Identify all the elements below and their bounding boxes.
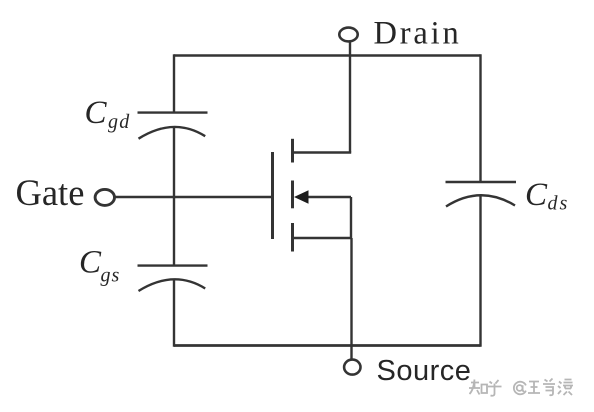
svg-text:Drain: Drain xyxy=(374,15,462,51)
wire body lead xyxy=(305,196,351,198)
wire right rail lower segment xyxy=(479,197,481,347)
wire right rail upper segment xyxy=(479,54,481,182)
滨 xyxy=(558,380,573,396)
svg-text:gd: gd xyxy=(108,111,130,133)
svg-text:gs: gs xyxy=(101,265,121,287)
svg-text:Gate: Gate xyxy=(16,172,85,213)
王 xyxy=(528,382,540,394)
wire bottom rail xyxy=(174,344,481,347)
transistor Q1 body arrow xyxy=(294,190,309,203)
乎 xyxy=(488,380,502,396)
terminal Drain (circle) xyxy=(339,28,357,42)
wire gate lead xyxy=(116,196,272,198)
wire source lead xyxy=(293,237,352,239)
wire left rail lower segment xyxy=(173,280,175,347)
capacitor Cgd xyxy=(138,113,208,139)
terminal Source (circle) xyxy=(344,360,360,375)
terminal Gate (circle) xyxy=(95,189,114,205)
wire top rail xyxy=(174,54,481,56)
svg-text:C: C xyxy=(79,244,102,280)
@ xyxy=(517,385,523,391)
watermark 知乎 @王笃滨 xyxy=(469,379,573,396)
svg-text:Source: Source xyxy=(377,355,472,387)
知 xyxy=(469,380,480,395)
笃 xyxy=(543,379,555,396)
transistor Q1 channel dashes xyxy=(291,139,294,252)
wire left rail upper segment xyxy=(173,54,175,112)
capacitor Cgs xyxy=(138,266,208,291)
capacitor Cds xyxy=(446,182,517,207)
wire drain lead xyxy=(293,151,352,153)
svg-text:C: C xyxy=(525,177,548,213)
svg-text:C: C xyxy=(85,95,108,131)
transistor Q1 gate bar xyxy=(271,152,274,239)
wire source stem xyxy=(350,238,352,359)
wire drain stem xyxy=(349,42,351,153)
wire left rail middle segment xyxy=(173,128,175,266)
wire body vertical xyxy=(350,197,352,238)
svg-text:ds: ds xyxy=(548,193,570,215)
